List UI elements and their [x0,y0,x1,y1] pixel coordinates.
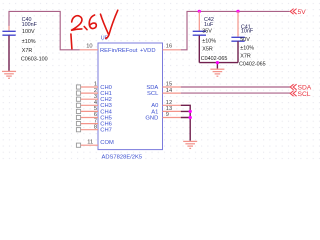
capacitor C42 top pin [198,11,200,30]
wire REFin net: C40 top to pin 10 [9,11,80,49]
svg-text:35V: 35V [202,29,212,35]
svg-text:X7R: X7R [240,53,251,59]
svg-text:C0603-100: C0603-100 [21,57,48,63]
pin 5 CH4 [76,106,98,113]
pin 9 GND [163,112,181,118]
svg-text:A1: A1 [151,109,158,115]
op-amp U5 body ADS7828 [98,43,163,150]
pin 11 COM [76,139,98,147]
pin 13 A1 [163,106,181,112]
pin 6 CH5 [76,112,98,119]
capacitor C40 top pin [8,26,10,31]
svg-text:6: 6 [94,112,97,118]
ground (IC pins) [183,141,197,148]
svg-text:A0: A0 [151,103,158,109]
pin 14 SCL [163,88,181,94]
svg-text:13: 13 [166,106,172,112]
svg-text:SDA: SDA [146,85,158,91]
wire ground rail under C42/C41 [199,63,238,69]
svg-text:100V: 100V [22,29,35,35]
pin 1 CH0 [76,82,98,89]
port SCL [290,91,311,98]
power port 5V [290,9,306,16]
svg-text:COM: COM [100,140,114,146]
svg-text:SCL: SCL [147,91,159,97]
svg-text:4: 4 [94,100,97,106]
pin 4 CH3 [76,100,98,107]
svg-text:7: 7 [94,118,97,124]
svg-text:12: 12 [166,100,172,106]
pin 8 CH7 [76,124,98,131]
pin 16 +VDD [163,44,181,50]
svg-text:8: 8 [94,124,97,130]
svg-text:16: 16 [166,44,172,50]
pin 2 CH1 [76,88,98,95]
svg-text:10: 10 [86,44,92,50]
svg-text:C0402-065: C0402-065 [239,61,266,67]
pin 12 A0 [163,100,181,106]
junction (A1) [189,110,192,113]
pin 10 REFin/REFout [80,44,98,50]
port SDA [290,84,312,91]
wire A0/A1/GND tie-down [181,105,190,141]
svg-text:CH7: CH7 [100,128,112,134]
svg-text:11: 11 [87,139,93,145]
pin 7 CH6 [76,118,98,125]
svg-text:CH4: CH4 [100,109,112,115]
svg-text:SCL: SCL [298,91,311,98]
capacitor C41 top pin [237,11,239,36]
svg-text:1: 1 [94,82,97,88]
annotation handwritten 2.6 V [71,10,118,49]
svg-text:100nF: 100nF [22,22,38,28]
junction (C41 at 5V rail) [236,10,239,13]
wire 5V rail from pin16 [181,11,290,49]
svg-text:3: 3 [94,94,97,100]
svg-text:ADS7828E/2K5: ADS7828E/2K5 [102,154,143,160]
svg-text:5V: 5V [298,9,307,16]
svg-text:2: 2 [94,88,97,94]
svg-text:X5R: X5R [202,47,213,53]
capacitor C41 [231,24,265,67]
pin 3 CH2 [76,94,98,101]
capacitor C40 [2,17,47,62]
svg-text:15: 15 [166,82,172,88]
pin 15 SDA [163,82,181,88]
junction (GND pin) [189,116,192,119]
wire SCL to port [181,92,290,94]
svg-text:REFin/REFout: REFin/REFout [100,48,138,54]
svg-text:9: 9 [166,112,169,118]
svg-text:X7R: X7R [22,48,33,54]
svg-text:±10%: ±10% [202,39,216,45]
junction (ground rail) [216,61,219,64]
ground (C42/C41) [210,69,224,76]
svg-text:CH0: CH0 [100,85,112,91]
svg-text:±10%: ±10% [240,46,254,52]
wire C41 bottom [237,41,239,62]
svg-text:10nF: 10nF [241,29,254,35]
wire C40 bottom to ground [8,36,10,71]
svg-text:CH1: CH1 [100,91,112,97]
svg-text:C0402-065: C0402-065 [201,56,228,62]
svg-text:50V: 50V [240,37,250,43]
svg-text:GND: GND [145,115,158,121]
wire C42 bottom [198,36,200,63]
svg-text:CH2: CH2 [100,97,112,103]
wire SDA to port [181,86,290,88]
svg-text:1uF: 1uF [204,22,214,28]
svg-text:5: 5 [94,106,97,112]
svg-text:14: 14 [166,88,172,94]
IC internal labels [100,48,159,146]
svg-text:CH3: CH3 [100,103,112,109]
svg-text:+VDD: +VDD [140,48,156,54]
capacitor C42 [193,17,228,62]
svg-text:±10%: ±10% [22,39,36,45]
junction (C42 at 5V rail) [198,10,201,13]
ground (C40) [2,71,16,78]
svg-text:CH5: CH5 [100,115,112,121]
svg-text:CH6: CH6 [100,122,112,128]
